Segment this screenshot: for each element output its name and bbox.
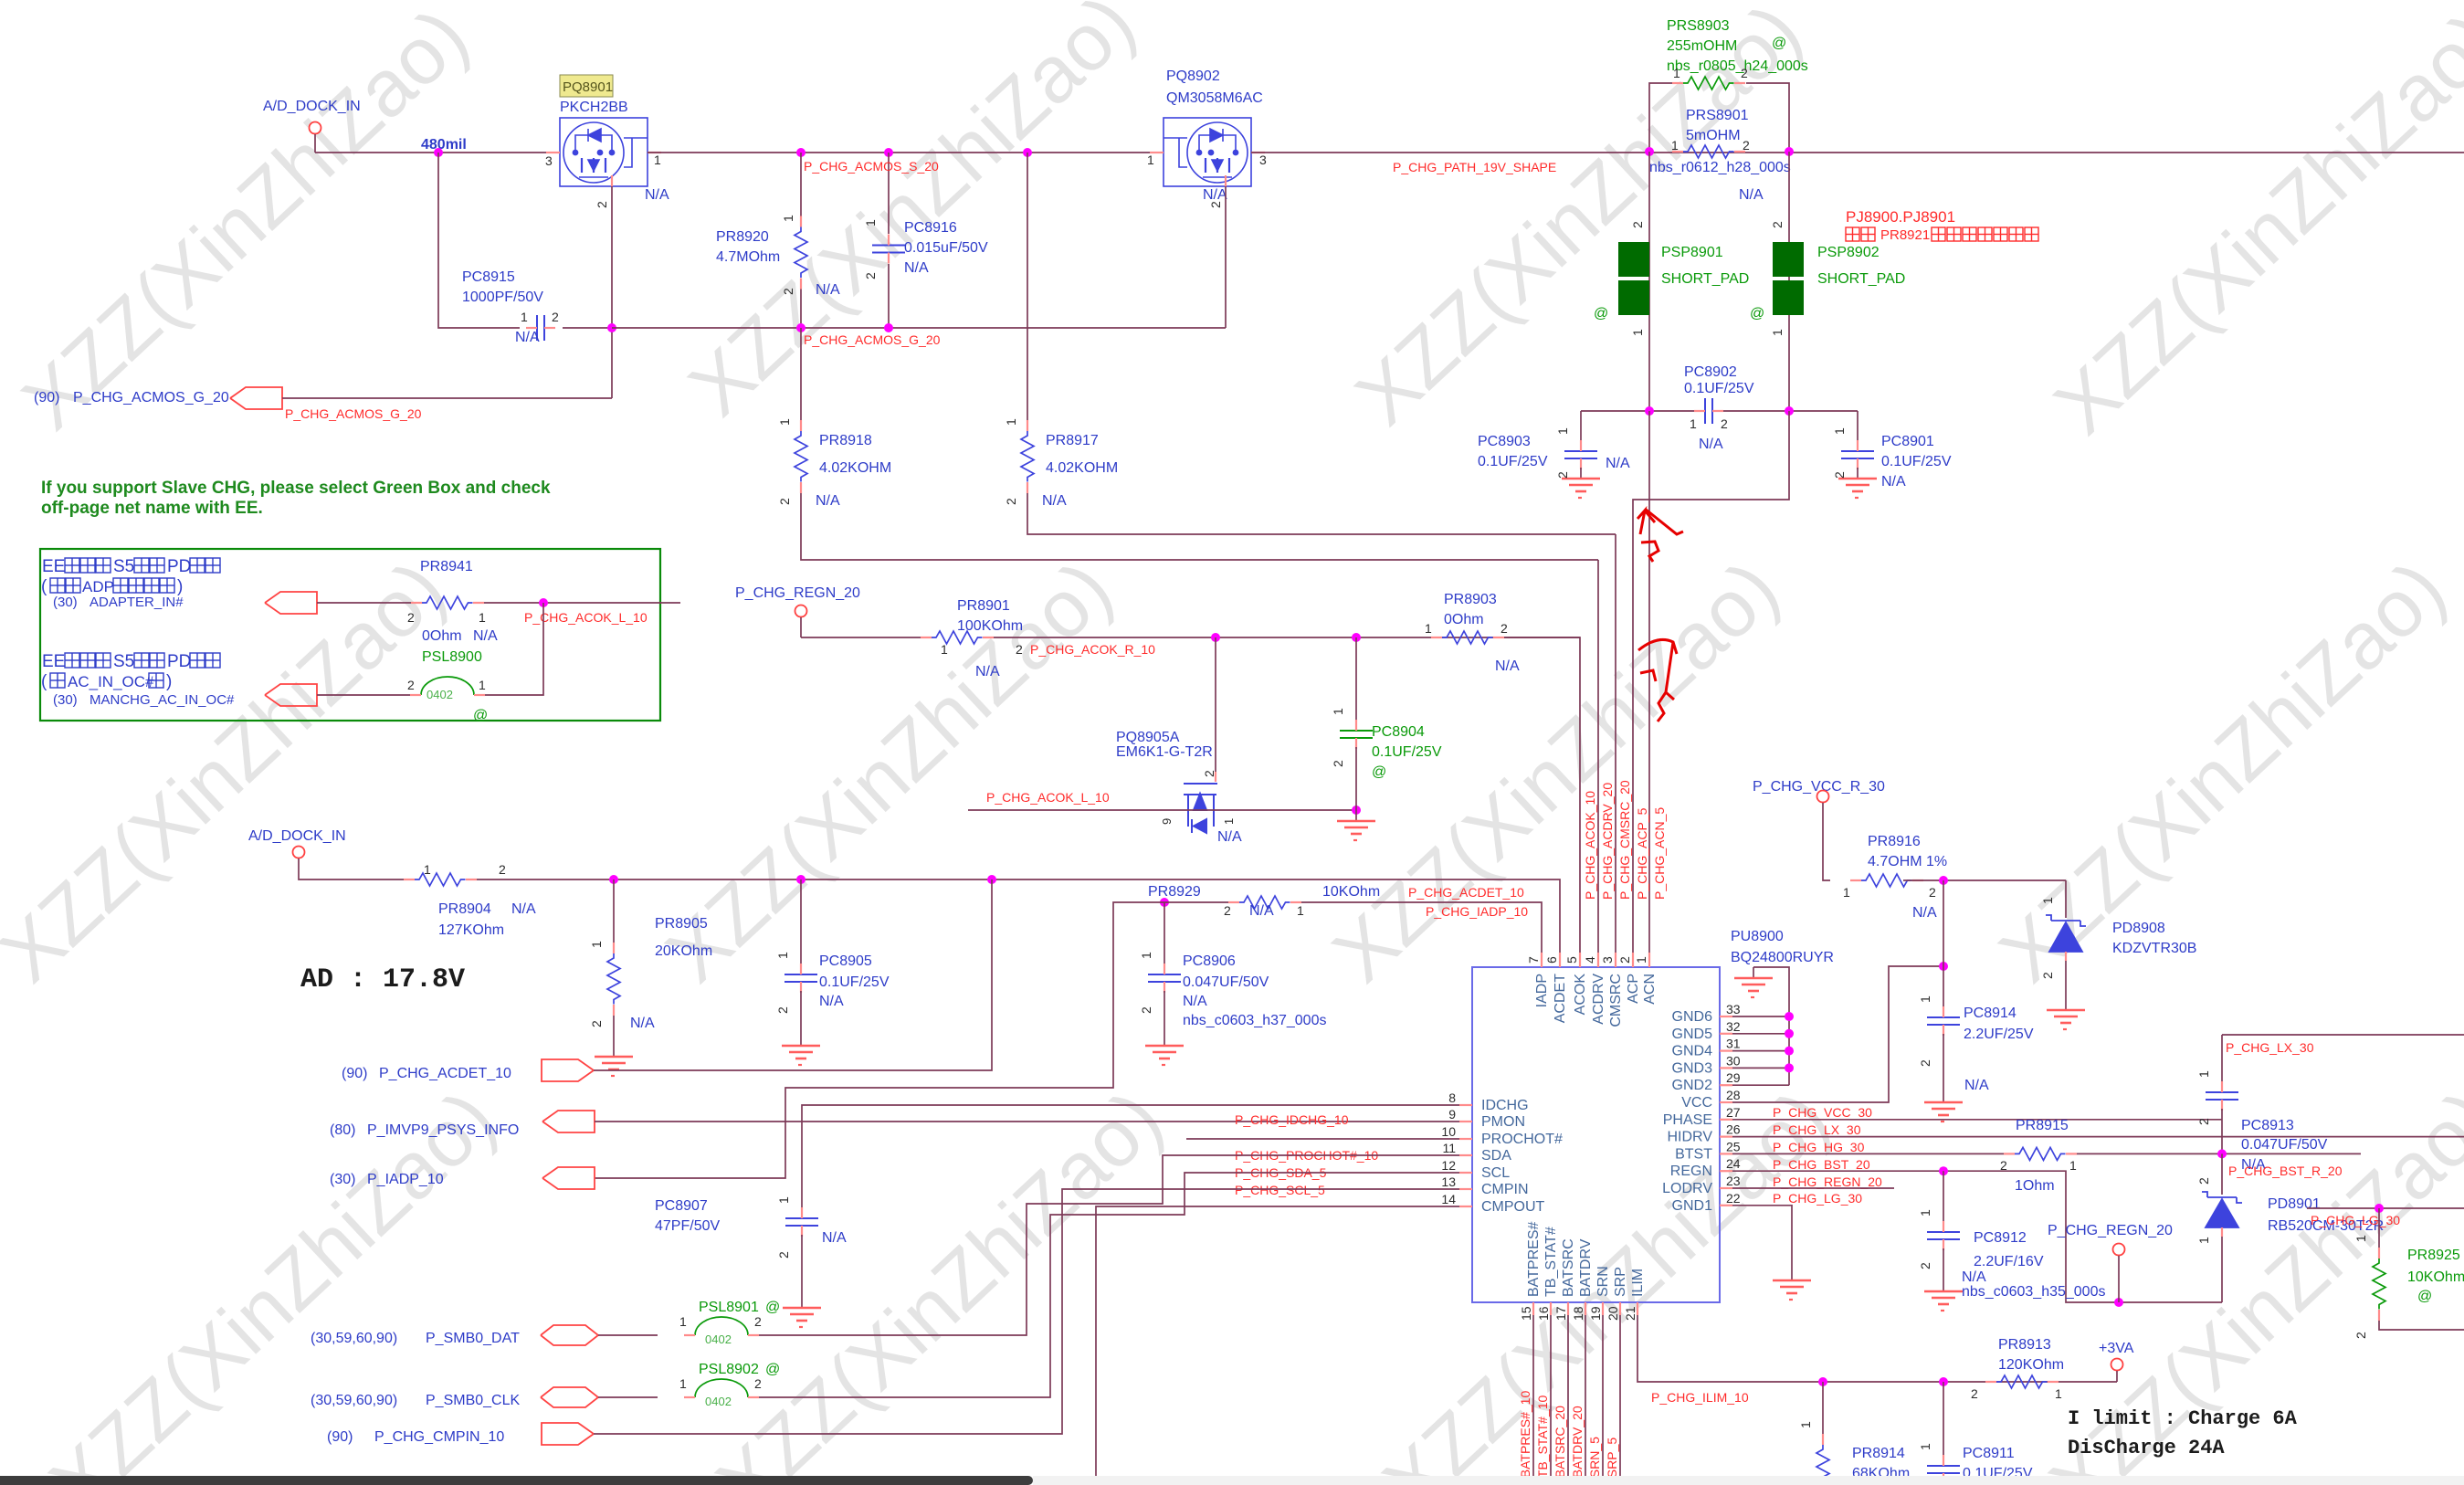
terminal P_CHG_REGN_20 right — [2048, 1223, 2173, 1302]
svg-text:(90): (90) — [342, 1066, 367, 1081]
wire PSP8901 column — [1648, 152, 1650, 411]
svg-text:10: 10 — [1441, 1124, 1456, 1139]
note slave CHG instruction — [41, 479, 551, 518]
svg-text:1: 1 — [1770, 329, 1785, 336]
svg-text:ACOK: ACOK — [1573, 974, 1588, 1016]
svg-text:2: 2 — [1741, 66, 1748, 80]
svg-text:9: 9 — [1448, 1107, 1456, 1122]
inductor PSL8902 0402 — [679, 1362, 780, 1408]
wire net P_CHG_ACDRV_20 riser — [1597, 560, 1599, 967]
svg-text:nbs_c0603_h35_000s: nbs_c0603_h35_000s — [1962, 1284, 2105, 1300]
label P_CHG_BST_R_20 — [2228, 1164, 2343, 1178]
capacitor PC8914 2.2UF/25V with ground — [1918, 880, 2034, 1122]
capacitor PC8903 0.1UF/25V with ground — [1478, 411, 1630, 498]
svg-text:@: @ — [2417, 1289, 2432, 1304]
svg-text:+3VA: +3VA — [2099, 1341, 2134, 1356]
junction main2/PR8905 — [609, 875, 618, 884]
svg-text:1: 1 — [1673, 66, 1680, 80]
svg-text:2.2UF/25V: 2.2UF/25V — [1964, 1027, 2034, 1042]
svg-text:N/A: N/A — [515, 330, 540, 345]
svg-text:N/A: N/A — [1217, 829, 1242, 845]
svg-text:N/A: N/A — [473, 628, 498, 644]
svg-text:1: 1 — [424, 862, 431, 877]
svg-text:N/A: N/A — [511, 901, 536, 917]
svg-text:): ) — [177, 577, 183, 596]
svg-text:0.047UF/50V: 0.047UF/50V — [2241, 1137, 2328, 1153]
svg-text:2: 2 — [2353, 1332, 2368, 1339]
wire ACOK_L down — [484, 603, 543, 695]
svg-text:REGN: REGN — [1670, 1164, 1712, 1179]
svg-text:If you support Slave CHG, plea: If you support Slave CHG, please select … — [41, 479, 551, 498]
svg-text:28: 28 — [1726, 1088, 1741, 1102]
wire PR8929 left — [1130, 901, 1228, 903]
svg-text:PC8901: PC8901 — [1881, 434, 1934, 449]
svg-text:P_CHG_BST_R_20: P_CHG_BST_R_20 — [2228, 1164, 2343, 1178]
svg-text:20KOhm: 20KOhm — [655, 943, 712, 959]
wire main 19V rail left — [315, 152, 560, 153]
svg-text:2: 2 — [863, 272, 878, 279]
svg-text:PRS8901: PRS8901 — [1686, 108, 1749, 123]
svg-text:P_CHG_IDCHG_10: P_CHG_IDCHG_10 — [1235, 1112, 1349, 1127]
svg-text:PD8908: PD8908 — [2112, 921, 2165, 936]
svg-text:3: 3 — [1600, 956, 1615, 964]
svg-text:0.047UF/50V: 0.047UF/50V — [1183, 974, 1269, 990]
svg-text:N/A: N/A — [819, 994, 844, 1009]
svg-text:P_CHG_CMSRC_20: P_CHG_CMSRC_20 — [1617, 780, 1632, 900]
capacitor PC8906 0.047UF/50V with ground — [1139, 902, 1326, 1065]
resistor PR8904 127KOhm — [404, 862, 1560, 967]
svg-text:GND2: GND2 — [1672, 1078, 1713, 1093]
svg-text:(30): (30) — [53, 595, 78, 610]
wire net P_CHG_SDA_5 path — [759, 1155, 1472, 1335]
svg-text:2: 2 — [1929, 885, 1936, 900]
svg-text:KDZVTR30B: KDZVTR30B — [2112, 941, 2196, 956]
green selection box — [40, 549, 660, 721]
junction GND bus — [1785, 1012, 1794, 1021]
svg-text:PC8914: PC8914 — [1964, 1006, 2016, 1021]
svg-text:26: 26 — [1726, 1122, 1741, 1137]
svg-text:1: 1 — [863, 219, 878, 226]
svg-text:PR8901: PR8901 — [957, 598, 1010, 614]
svg-text:PR8916: PR8916 — [1868, 834, 1921, 849]
svg-text:2: 2 — [781, 288, 795, 295]
svg-text:0402: 0402 — [426, 688, 453, 701]
junction PR8916/PC8914 — [1939, 876, 1948, 885]
svg-text:1: 1 — [2353, 1235, 2368, 1242]
svg-text:PC8902: PC8902 — [1684, 364, 1737, 380]
svg-text:@: @ — [765, 1362, 780, 1377]
svg-text:2: 2 — [499, 862, 506, 877]
svg-text:N/A: N/A — [1495, 658, 1520, 674]
svg-text:1: 1 — [679, 1376, 687, 1391]
inductor PSL8900 0402 — [407, 649, 488, 723]
svg-text:EE: EE — [42, 652, 65, 671]
svg-text:nbs_r0612_h28_000s: nbs_r0612_h28_000s — [1649, 160, 1791, 175]
svg-text:N/A: N/A — [816, 282, 840, 298]
junction ILIM/PC8911 — [1939, 1377, 1948, 1386]
svg-text:PR8925: PR8925 — [2407, 1248, 2460, 1263]
wire net P_CHG_VCC path — [1732, 966, 1943, 1102]
svg-text:AC_IN_OC#: AC_IN_OC# — [68, 673, 154, 690]
svg-text:47PF/50V: 47PF/50V — [655, 1218, 720, 1234]
svg-text:2: 2 — [1224, 903, 1231, 918]
svg-text:ADAPTER_IN#: ADAPTER_IN# — [90, 595, 184, 610]
svg-text:P_SMB0_CLK: P_SMB0_CLK — [426, 1393, 520, 1408]
svg-text:1: 1 — [1297, 903, 1304, 918]
svg-text:N/A: N/A — [1183, 994, 1207, 1009]
svg-text:33: 33 — [1726, 1002, 1741, 1016]
svg-text:PU8900: PU8900 — [1731, 929, 1784, 944]
note EE requirement chinese 2 — [41, 652, 220, 691]
svg-text:2: 2 — [1832, 471, 1847, 479]
svg-text:PC8912: PC8912 — [1974, 1230, 2027, 1246]
junction ACOK_L/ground — [1352, 806, 1361, 815]
wire net P_CHG_ACOK_L_10 row — [968, 790, 1356, 810]
svg-text:0.1UF/25V: 0.1UF/25V — [1881, 454, 1952, 469]
svg-text:2: 2 — [2196, 1177, 2211, 1185]
svg-text:PR8921: PR8921 — [1880, 227, 1930, 243]
svg-text:S5: S5 — [113, 557, 134, 576]
svg-text:2: 2 — [1555, 471, 1570, 479]
capacitor PC8902 0.1UF/25V — [1581, 364, 1858, 452]
svg-text:2: 2 — [407, 678, 415, 692]
svg-text:255mOHM: 255mOHM — [1667, 38, 1737, 54]
svg-text:N/A: N/A — [645, 187, 669, 203]
wire net P_CHG_BST path — [1732, 1153, 2004, 1172]
resistor PR8918 4.02KOHM — [777, 328, 1598, 560]
svg-text:2: 2 — [1004, 498, 1018, 505]
svg-text:A/D_DOCK_IN: A/D_DOCK_IN — [263, 99, 361, 114]
svg-text:1: 1 — [941, 642, 948, 657]
junction BST_R/LX column — [2217, 1149, 2227, 1158]
svg-text:PROCHOT#: PROCHOT# — [1481, 1132, 1563, 1147]
svg-text:1000PF/50V: 1000PF/50V — [462, 290, 543, 305]
junction main/PR8917 branch — [1023, 148, 1032, 157]
svg-text:1Ohm: 1Ohm — [2015, 1178, 2055, 1194]
svg-text:DisCharge 24A: DisCharge 24A — [2068, 1437, 2225, 1459]
svg-text:P_CHG_ACMOS_G_20: P_CHG_ACMOS_G_20 — [804, 332, 941, 347]
svg-text:9: 9 — [1160, 818, 1174, 825]
svg-text:2: 2 — [777, 498, 792, 505]
terminal P_CHG_VCC_R_30 — [1753, 779, 1885, 880]
svg-text:22: 22 — [1726, 1191, 1741, 1206]
wire net P_CHG_LODRV path — [1732, 1188, 1894, 1206]
svg-text:1: 1 — [776, 1196, 791, 1204]
short pad PSP8902 — [1750, 221, 1905, 336]
svg-text:4: 4 — [1583, 956, 1597, 964]
bottom bars — [0, 1476, 2464, 1485]
off-page P_CHG_ACDET_10 — [342, 879, 992, 1081]
wire net P_CHG_ACOK_10 riser — [1504, 637, 1580, 967]
svg-text:AD : 17.8V: AD : 17.8V — [300, 964, 465, 995]
svg-text:P_CHG_LG_30: P_CHG_LG_30 — [2311, 1213, 2400, 1227]
svg-text:_BATSRC_20: _BATSRC_20 — [1553, 1406, 1567, 1485]
ground at IC GND pins — [1734, 967, 1789, 1085]
resistor PR8917 4.02KOHM — [1004, 153, 1616, 534]
svg-text:2: 2 — [1617, 956, 1632, 964]
svg-text:@: @ — [765, 1300, 780, 1315]
svg-text:P_CHG_ACOK_10: P_CHG_ACOK_10 — [1583, 791, 1597, 900]
svg-text:0.1UF/25V: 0.1UF/25V — [1478, 454, 1548, 469]
svg-text:11: 11 — [1442, 1141, 1456, 1155]
wire net P_CHG_HG path — [1732, 1137, 2464, 1154]
svg-text:2: 2 — [407, 610, 415, 625]
svg-text:PC8905: PC8905 — [819, 953, 872, 969]
svg-text:PHASE: PHASE — [1663, 1112, 1712, 1128]
svg-text:nbs_r0805_h24_000s: nbs_r0805_h24_000s — [1667, 58, 1808, 74]
svg-text:30: 30 — [1726, 1053, 1741, 1068]
svg-text:ACDRV: ACDRV — [1591, 974, 1606, 1025]
svg-text:4.02KOHM: 4.02KOHM — [1046, 460, 1118, 476]
svg-text:PD8901: PD8901 — [2268, 1196, 2321, 1212]
wires bottom pins down — [1533, 1315, 1620, 1485]
wire PSP8902 column — [1788, 152, 1790, 411]
svg-text:4.7OHM 1%: 4.7OHM 1% — [1868, 854, 1947, 869]
label P_CHG_ACMOS_G_20 net — [804, 332, 941, 347]
svg-text:29: 29 — [1726, 1070, 1741, 1085]
svg-text:P_CHG_REGN_20: P_CHG_REGN_20 — [735, 585, 860, 601]
svg-text:P_CHG_SCL_5: P_CHG_SCL_5 — [1235, 1183, 1325, 1197]
svg-text:2.2UF/16V: 2.2UF/16V — [1974, 1254, 2044, 1269]
svg-text:PC8913: PC8913 — [2241, 1118, 2294, 1133]
terminal +3VA — [2099, 1341, 2134, 1382]
svg-text:(30,59,60,90): (30,59,60,90) — [311, 1393, 397, 1408]
svg-text:1: 1 — [1222, 818, 1236, 825]
off-page MANCHG_AC_IN_OC# — [53, 684, 411, 708]
svg-text:PSL8902: PSL8902 — [699, 1362, 759, 1377]
svg-text:PR8905: PR8905 — [655, 916, 708, 932]
junction GND bus — [1785, 1047, 1794, 1056]
svg-text:N/A: N/A — [1962, 1269, 1986, 1285]
svg-text:2: 2 — [1743, 138, 1750, 153]
junction main2/PC8905 — [796, 875, 806, 884]
svg-text:14: 14 — [1441, 1192, 1456, 1206]
svg-text:0402: 0402 — [705, 1395, 732, 1408]
wire net P_CHG_REGN path — [1732, 1171, 2222, 1302]
off-page bottom partial arrow — [552, 1480, 593, 1485]
resistor PR8901 100KOhm — [921, 598, 1580, 679]
svg-text:8: 8 — [1448, 1090, 1456, 1105]
svg-text:P_CHG_CMPIN_10: P_CHG_CMPIN_10 — [374, 1429, 504, 1445]
off-page P_CHG_CMPIN_10 — [327, 1423, 594, 1445]
wire net P_CHG_SCL_5 path — [759, 1173, 1472, 1397]
wire PQ8901 gate drop — [611, 186, 613, 398]
note current limit — [2068, 1407, 2298, 1459]
svg-text:QM3058M6AC: QM3058M6AC — [1166, 90, 1263, 106]
svg-text:PR8903: PR8903 — [1444, 592, 1497, 607]
svg-text:1: 1 — [1918, 1209, 1932, 1216]
svg-text:3: 3 — [545, 153, 553, 168]
junction PR8929/PC8906 — [1160, 898, 1169, 907]
svg-text:N/A: N/A — [1606, 456, 1630, 471]
junction main2/ACDET arrow — [987, 875, 996, 884]
junction PC8902 left — [1645, 406, 1654, 416]
inductor PSL8901 0402 — [679, 1300, 780, 1346]
svg-text:0Ohm: 0Ohm — [1444, 612, 1484, 627]
svg-text:CMPOUT: CMPOUT — [1481, 1199, 1545, 1215]
red marker scribble 2 — [1638, 639, 1677, 721]
svg-text:1: 1 — [1555, 427, 1570, 435]
svg-text:2: 2 — [1630, 221, 1645, 228]
svg-text:1: 1 — [1139, 952, 1153, 959]
capacitor PC8901 0.1UF/25V with ground — [1832, 411, 1952, 498]
svg-text:100KOhm: 100KOhm — [957, 618, 1023, 634]
resistor PR8915 1Ohm — [2000, 1118, 2361, 1194]
svg-text:N/A: N/A — [1739, 187, 1764, 203]
ground at PC8904 — [1337, 810, 1375, 840]
svg-text:ADP: ADP — [82, 578, 114, 595]
svg-text:P_CHG_ACMOS_S_20: P_CHG_ACMOS_S_20 — [804, 159, 939, 174]
svg-text:1: 1 — [1918, 1443, 1932, 1450]
svg-text:P_CHG_REGN_20: P_CHG_REGN_20 — [2048, 1223, 2173, 1238]
svg-text:1: 1 — [1690, 416, 1697, 431]
svg-text:1: 1 — [521, 310, 528, 324]
short pad PSP8901 — [1594, 221, 1749, 336]
wire net P_CHG_IADP_10 path — [595, 902, 1130, 1178]
svg-text:1: 1 — [1425, 621, 1432, 636]
svg-text:(90): (90) — [34, 390, 59, 405]
wire net P_CHG_CMSRC_20 riser — [1615, 534, 1616, 967]
diode PD8901 RB520CM-30T2R — [2196, 1153, 2384, 1302]
svg-text:2: 2 — [775, 1006, 790, 1014]
svg-text:P_CHG_BST_20: P_CHG_BST_20 — [1773, 1157, 1870, 1172]
resistor PR8925 10KOhm green — [2353, 1208, 2464, 1339]
wire PQ8902 gate drop — [1225, 186, 1227, 328]
svg-text:P_CHG_ACOK_L_10: P_CHG_ACOK_L_10 — [986, 790, 1110, 805]
diode PD8908 KDZVTR30B with ground — [2040, 880, 2196, 1029]
junction main/PRS right — [1785, 147, 1794, 156]
svg-text:PR8914: PR8914 — [1852, 1446, 1905, 1461]
svg-text:1: 1 — [1147, 153, 1154, 167]
net A/D_DOCK_IN terminal — [263, 99, 361, 153]
labels bottom pin nets vertical — [1518, 1391, 1619, 1485]
svg-text:P_CHG_PATH_19V_SHAPE: P_CHG_PATH_19V_SHAPE — [1393, 160, 1556, 174]
junction ACOK_L — [539, 598, 548, 607]
svg-text:PR8915: PR8915 — [2016, 1118, 2069, 1133]
capacitor PC8912 2.2UF/16V with ground — [1918, 1171, 2105, 1311]
svg-text:P_CHG_ILIM_10: P_CHG_ILIM_10 — [1651, 1390, 1749, 1405]
wire net P_CHG_CMPIN path — [594, 1189, 1472, 1434]
svg-text:IADP: IADP — [1534, 974, 1550, 1007]
svg-text:PC8915: PC8915 — [462, 269, 515, 285]
svg-text:BATPRES#: BATPRES# — [1526, 1222, 1542, 1298]
svg-text:2: 2 — [595, 201, 609, 208]
svg-text:18: 18 — [1571, 1306, 1585, 1321]
svg-text:PJ8900.PJ8901: PJ8900.PJ8901 — [1846, 208, 1955, 226]
svg-text:4.02KOHM: 4.02KOHM — [819, 460, 891, 476]
svg-text:2: 2 — [1139, 1006, 1153, 1014]
capacitor PC8904 0.1UF/25V green — [1331, 637, 1442, 810]
svg-text:0.015uF/50V: 0.015uF/50V — [904, 240, 988, 256]
junction GND bus — [1785, 1063, 1794, 1072]
svg-text:1: 1 — [1832, 427, 1847, 435]
note EE requirement chinese 1 — [41, 557, 220, 596]
svg-text:SHORT_PAD: SHORT_PAD — [1661, 271, 1749, 287]
svg-text:10KOhm: 10KOhm — [1322, 884, 1380, 900]
wire net P_CHG_ACN_5 riser — [1648, 411, 1650, 967]
junction main/PC8916 — [884, 148, 893, 157]
svg-text:BQ24800RUYR: BQ24800RUYR — [1731, 950, 1834, 965]
svg-text:0.1UF/25V: 0.1UF/25V — [819, 974, 890, 990]
svg-text:2: 2 — [589, 1020, 604, 1027]
wire net P_CHG_ACP_5 riser — [1633, 411, 1789, 967]
svg-text:2: 2 — [1721, 416, 1728, 431]
junction main/PR8920 — [796, 148, 806, 157]
svg-text:PKCH2BB: PKCH2BB — [560, 100, 628, 115]
svg-text:17: 17 — [1553, 1306, 1568, 1321]
svg-text:CMSRC: CMSRC — [1608, 974, 1624, 1027]
svg-text:2: 2 — [1016, 642, 1023, 657]
svg-text:(: ( — [41, 672, 47, 691]
svg-text:N/A: N/A — [975, 664, 1000, 679]
svg-text:ACN: ACN — [1642, 974, 1658, 1005]
junction ACOK/PC8904 — [1352, 633, 1361, 642]
svg-text:PQ8902: PQ8902 — [1166, 68, 1220, 84]
svg-text:SRP: SRP — [1613, 1267, 1628, 1297]
svg-text:ILIM: ILIM — [1630, 1269, 1646, 1297]
svg-text:P_CHG_HG_30: P_CHG_HG_30 — [1773, 1140, 1865, 1154]
wire net P_CHG_ACMOS_G_20 horizontal — [612, 327, 1226, 329]
svg-text:_BATDRV_20: _BATDRV_20 — [1570, 1406, 1585, 1485]
svg-text:N/A: N/A — [1699, 437, 1723, 452]
svg-text:GND3: GND3 — [1672, 1060, 1713, 1076]
svg-text:@: @ — [1750, 306, 1764, 321]
resistor PRS8903 255mOHM (top loop) — [1649, 18, 1808, 152]
svg-text:PSL8901: PSL8901 — [699, 1300, 759, 1315]
wires GND6-GND2 to vertical — [1732, 1016, 1789, 1085]
svg-text:13: 13 — [1441, 1174, 1456, 1189]
svg-text:GND1: GND1 — [1672, 1198, 1713, 1214]
svg-text:PSL8900: PSL8900 — [422, 649, 482, 665]
transistor PQ8905A EM6K1-G-T2R — [1116, 637, 1242, 845]
junction PC8902 right — [1785, 406, 1794, 416]
svg-text:2: 2 — [1918, 1059, 1932, 1067]
svg-text:2: 2 — [1331, 760, 1345, 767]
svg-text:2: 2 — [552, 310, 559, 324]
svg-text:N/A: N/A — [1203, 187, 1227, 203]
svg-text:1: 1 — [2196, 1237, 2211, 1244]
resistor PR8916 4.7OHM 1% — [1843, 834, 2066, 921]
capacitor PC8905 0.1UF/25V with ground — [775, 879, 890, 1065]
svg-text:2: 2 — [754, 1376, 762, 1391]
svg-text:N/A: N/A — [1881, 474, 1906, 490]
junction VCC/PC8914 — [1939, 962, 1948, 971]
partial red box bottom — [2066, 1479, 2119, 1485]
svg-text:23: 23 — [1726, 1174, 1741, 1188]
svg-text:MANCHG_AC_IN_OC#: MANCHG_AC_IN_OC# — [90, 692, 235, 708]
svg-text:1: 1 — [589, 941, 604, 948]
svg-text:1: 1 — [1843, 885, 1850, 900]
svg-text:@: @ — [1372, 764, 1386, 780]
capacitor PC8913 0.047UF/50V — [2196, 1070, 2328, 1173]
svg-text:P_CHG_LX_30: P_CHG_LX_30 — [2226, 1040, 2314, 1055]
svg-text:5mOHM: 5mOHM — [1686, 128, 1741, 143]
svg-text:VCC: VCC — [1681, 1095, 1712, 1111]
svg-text:P_CHG_LG_30: P_CHG_LG_30 — [1773, 1191, 1862, 1206]
svg-text:GND5: GND5 — [1672, 1027, 1713, 1042]
junction LG/PR8925 — [2374, 1204, 2384, 1213]
resistor PR8920 4.7MOhm — [716, 153, 840, 328]
junction ACMOS_G/PC8916 — [884, 323, 893, 332]
label P_CHG_PROCHOT#_10 — [1186, 1139, 1472, 1163]
svg-text:127KOhm: 127KOhm — [438, 922, 504, 938]
label P_CHG_VCC_30 — [1773, 1105, 1872, 1120]
svg-text:PR8941: PR8941 — [420, 559, 473, 574]
svg-text:10KOhm: 10KOhm — [2407, 1269, 2464, 1285]
svg-text:2: 2 — [2040, 972, 2055, 979]
svg-text:P_CHG_ACDRV_20: P_CHG_ACDRV_20 — [1600, 783, 1615, 900]
svg-text:PSP8901: PSP8901 — [1661, 245, 1723, 260]
